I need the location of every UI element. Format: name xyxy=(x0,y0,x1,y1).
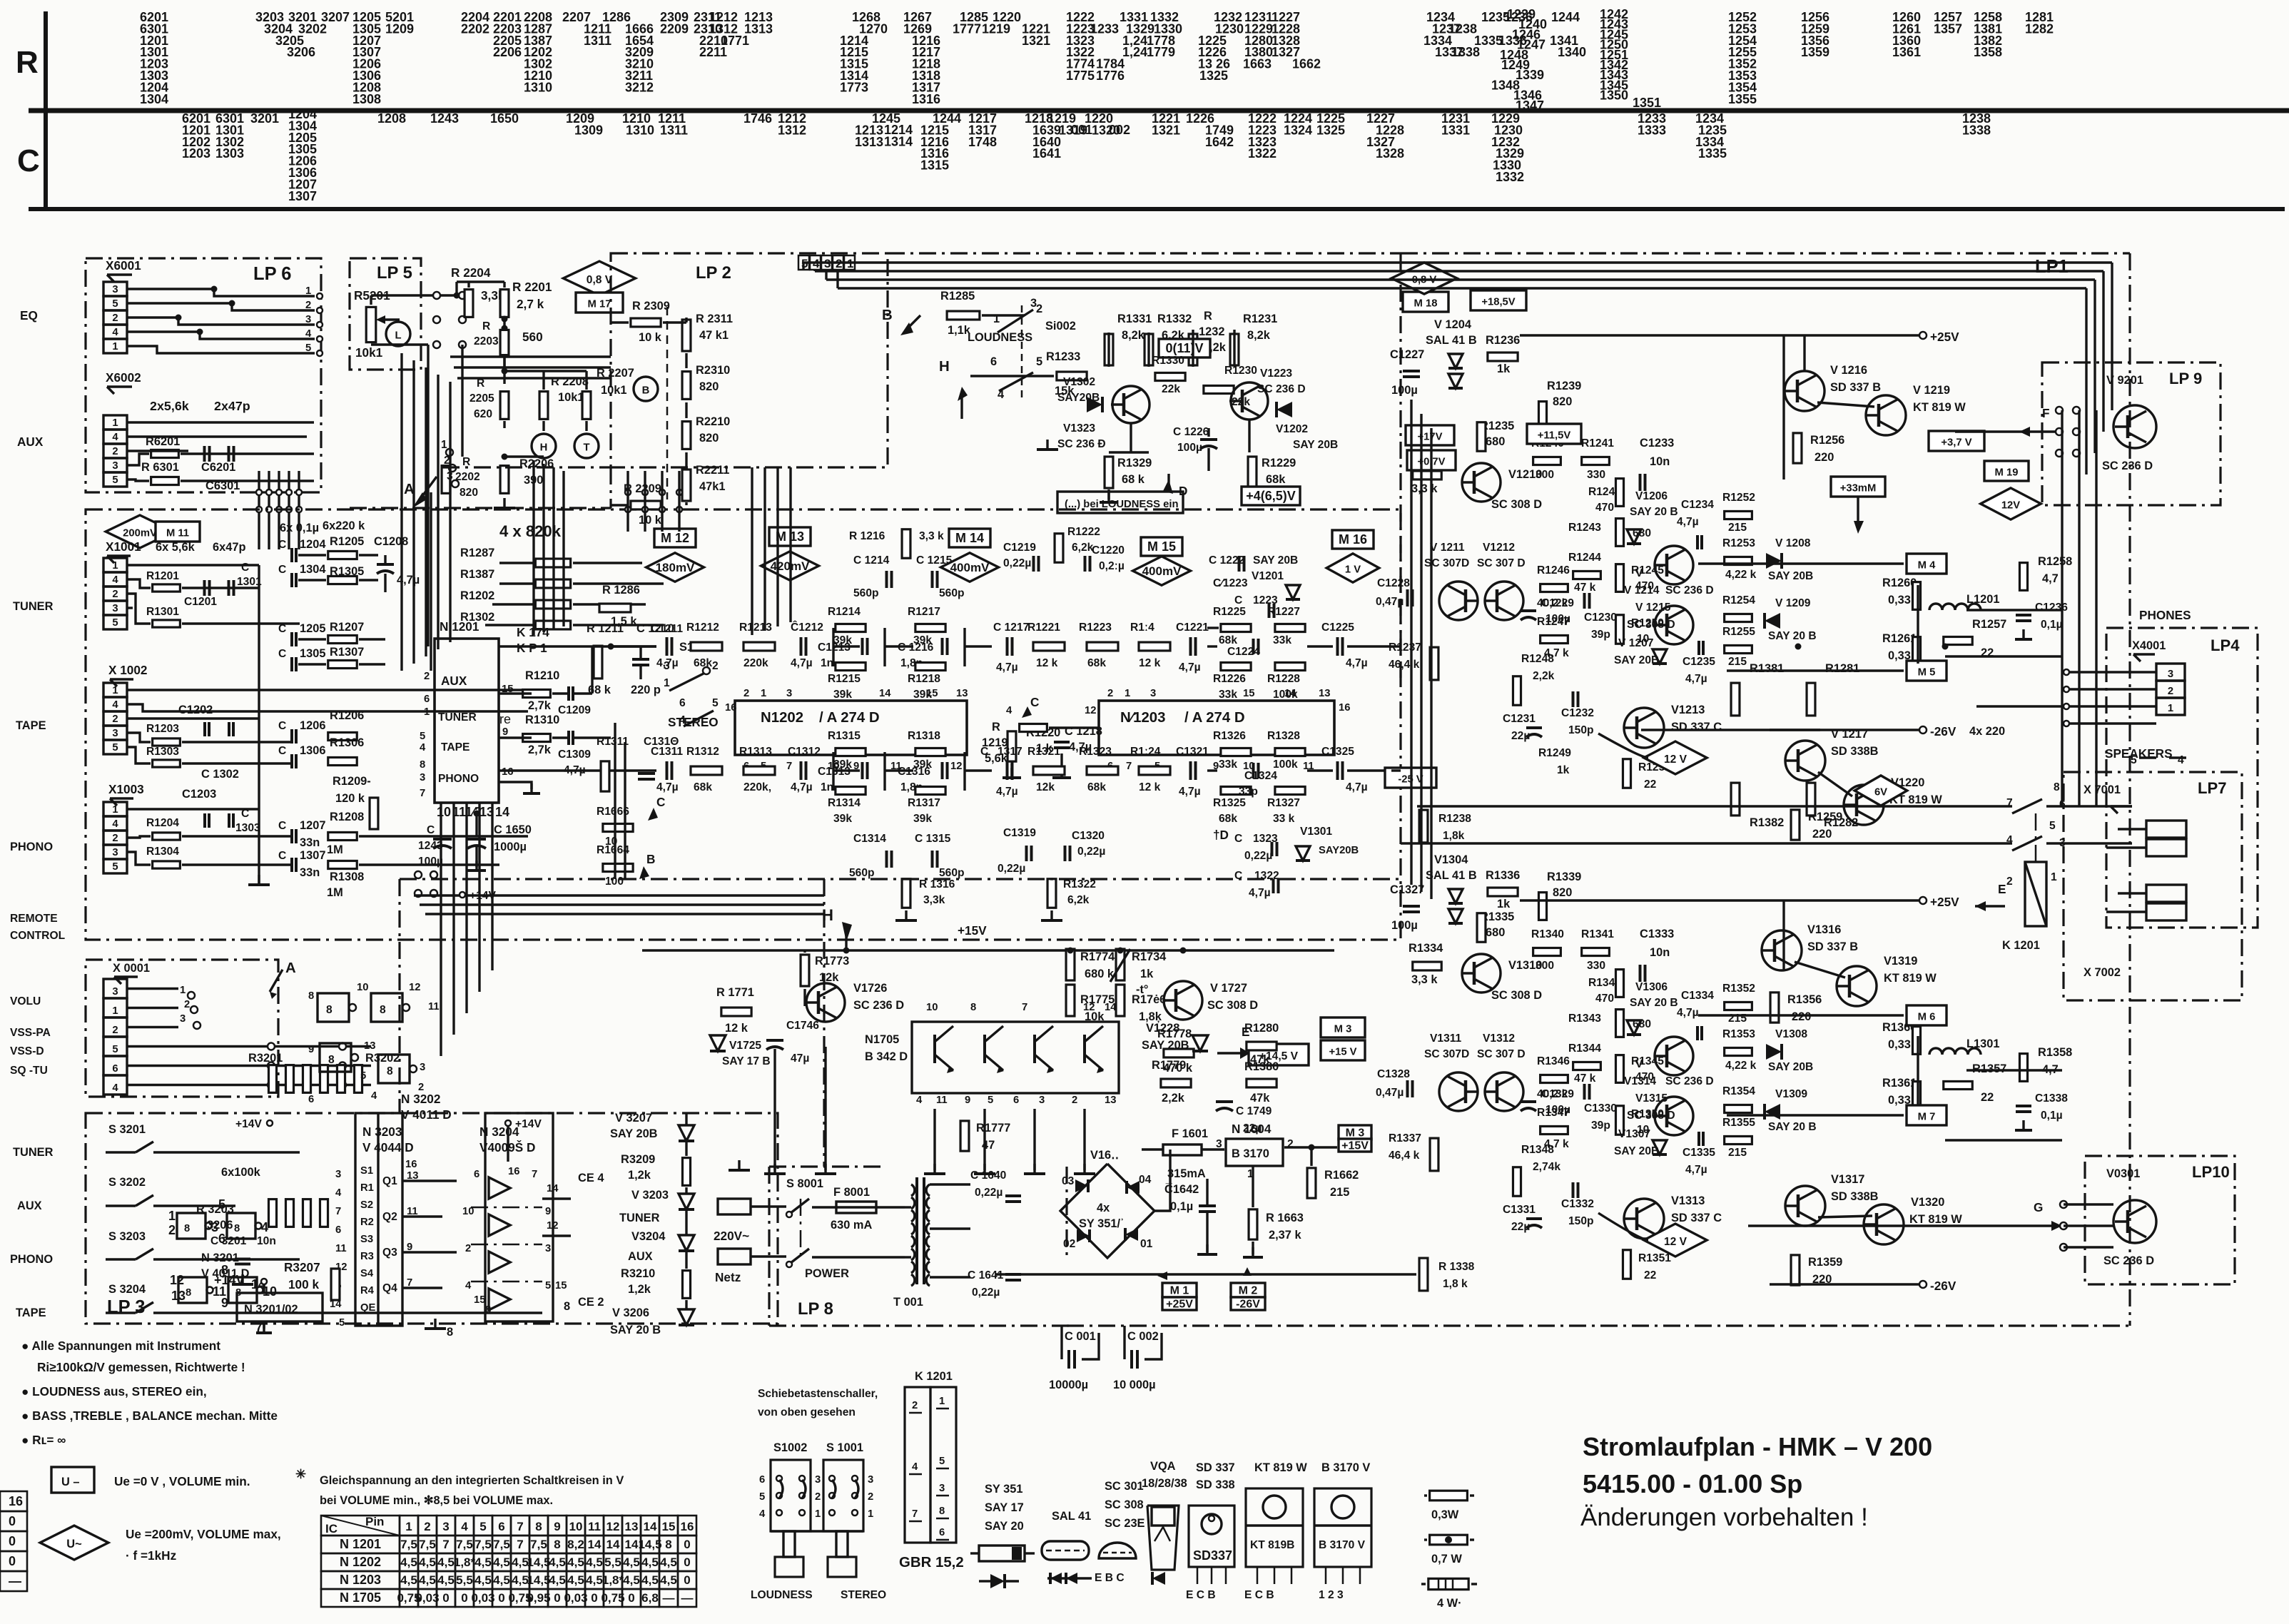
svg-text:4: 4 xyxy=(912,1461,918,1473)
svg-text:SD 338В: SD 338В xyxy=(1831,1190,1879,1203)
svg-text:Gleichspannung an den integrie: Gleichspannung an den integrierten Schal… xyxy=(320,1474,624,1487)
resistor R1250 10 xyxy=(1615,615,1623,644)
transistor V1210 SC308D xyxy=(1462,463,1501,502)
svg-text:+25V: +25V xyxy=(1930,895,1959,909)
svg-text:R1347: R1347 xyxy=(1537,1107,1570,1119)
svg-text:C1331: C1331 xyxy=(1503,1204,1536,1216)
wire +15V rail xyxy=(642,949,1334,951)
diode V1302 xyxy=(1087,397,1102,412)
measure M14 xyxy=(949,529,990,547)
transistor V1314 SC236D xyxy=(1655,1037,1693,1075)
svg-text:SAY 17: SAY 17 xyxy=(985,1501,1024,1514)
svg-text:4,5: 4,5 xyxy=(493,1556,510,1569)
svg-text:13: 13 xyxy=(1105,1095,1116,1106)
svg-text:400mV: 400mV xyxy=(950,561,990,574)
svg-text:12 k: 12 k xyxy=(725,1022,748,1035)
svg-text:Ĉ1212: Ĉ1212 xyxy=(791,620,823,634)
svg-text:0: 0 xyxy=(461,1591,467,1605)
svg-text:TAPE: TAPE xyxy=(16,1306,46,1319)
svg-text:C1338: C1338 xyxy=(2035,1092,2068,1105)
svg-text:40,2 k: 40,2 k xyxy=(1537,1088,1568,1100)
svg-text:X 7002: X 7002 xyxy=(2084,966,2121,979)
svg-text:12 V: 12 V xyxy=(1664,753,1687,766)
svg-text:4: 4 xyxy=(759,1508,766,1520)
svg-text:1335: 1335 xyxy=(1698,146,1727,161)
svg-text:X 1002: X 1002 xyxy=(108,663,147,677)
svg-text:3: 3 xyxy=(112,728,118,739)
svg-text:14: 14 xyxy=(606,1538,620,1551)
svg-text:2: 2 xyxy=(1107,688,1113,699)
svg-text:4,7µ: 4,7µ xyxy=(791,657,813,669)
svg-text:4,5: 4,5 xyxy=(549,1573,566,1587)
svg-text:1361: 1361 xyxy=(1892,45,1921,59)
box M1 +25V xyxy=(1162,1283,1197,1297)
svg-text:H: H xyxy=(540,442,548,453)
svg-text:8: 8 xyxy=(665,1538,671,1551)
svg-text:V 1204: V 1204 xyxy=(1434,318,1472,331)
measure M15 xyxy=(1141,537,1182,556)
svg-text:M 3: M 3 xyxy=(1346,1127,1365,1139)
svg-text:C 1215: C 1215 xyxy=(916,554,953,567)
svg-text:4,7µ: 4,7µ xyxy=(656,781,679,793)
wires lower row right xyxy=(1207,769,1217,771)
LP3 board outline xyxy=(86,1113,778,1324)
svg-text:1238: 1238 xyxy=(1448,21,1477,36)
svg-text:1303: 1303 xyxy=(215,146,244,161)
svg-text:470: 470 xyxy=(1595,502,1614,514)
svg-text:0,22µ: 0,22µ xyxy=(1003,557,1031,569)
svg-text:1357: 1357 xyxy=(1934,21,1962,36)
legend U- box xyxy=(51,1467,94,1493)
IC voltage table xyxy=(321,1516,400,1536)
wires between ICs xyxy=(1049,726,1099,729)
svg-text:1642: 1642 xyxy=(1205,135,1234,149)
svg-text:47k1: 47k1 xyxy=(699,480,725,493)
svg-text:+15 V: +15 V xyxy=(1329,1046,1356,1057)
svg-text:V1323: V1323 xyxy=(1063,422,1095,435)
capacitor C1208 electrolytic xyxy=(377,563,394,566)
svg-text:470: 470 xyxy=(1595,993,1614,1005)
svg-text:R1336: R1336 xyxy=(1486,869,1520,882)
svg-text:1331: 1331 xyxy=(1441,123,1470,137)
svg-text:R 2204: R 2204 xyxy=(451,265,491,280)
svg-text:B: B xyxy=(642,385,650,396)
relay K1201 xyxy=(2025,862,2046,926)
circle L xyxy=(386,322,410,346)
svg-text:V: V xyxy=(1635,1058,1643,1070)
svg-text:GBR 15,2: GBR 15,2 xyxy=(899,1555,964,1570)
svg-text:3: 3 xyxy=(112,284,118,295)
svg-text:68k: 68k xyxy=(694,657,712,669)
svg-text:R1323: R1323 xyxy=(1079,746,1112,758)
resistor R1350 10 xyxy=(1615,1106,1623,1135)
legend diode triangle xyxy=(990,1574,1005,1588)
svg-text:LP 5: LP 5 xyxy=(377,263,412,283)
svg-text:7,5: 7,5 xyxy=(400,1538,417,1551)
svg-text:12: 12 xyxy=(950,761,962,772)
svg-text:1: 1 xyxy=(2051,871,2057,883)
svg-text:C1312: C1312 xyxy=(788,746,821,758)
svg-text:V1311: V1311 xyxy=(1430,1032,1462,1045)
svg-text:C1314: C1314 xyxy=(853,833,886,845)
svg-text:1: 1 xyxy=(305,285,311,297)
wire upper channel output to LP9 xyxy=(1966,609,2062,611)
svg-text:V1312: V1312 xyxy=(1483,1032,1515,1045)
legend wattage 0,3W xyxy=(1430,1491,1468,1501)
svg-text:V1315: V1315 xyxy=(1635,1092,1668,1105)
svg-text:15: 15 xyxy=(555,1280,567,1291)
svg-text:SAY 20B: SAY 20B xyxy=(610,1127,658,1140)
svg-text:4: 4 xyxy=(112,1082,118,1094)
svg-text:4,5: 4,5 xyxy=(641,1556,659,1569)
svg-text:820: 820 xyxy=(1553,886,1572,899)
svg-text:3,3k: 3,3k xyxy=(923,894,945,906)
svg-text:LP7: LP7 xyxy=(2198,779,2227,797)
wire bundle tone verticals xyxy=(532,460,534,635)
svg-text:N 1705: N 1705 xyxy=(340,1590,381,1605)
svg-text:R1225: R1225 xyxy=(1213,606,1246,618)
wire +25V rail out xyxy=(995,1273,1416,1275)
svg-text:SAL 41 B: SAL 41 B xyxy=(1426,334,1477,347)
svg-text:22k: 22k xyxy=(1162,383,1180,395)
svg-text:6V: 6V xyxy=(1874,786,1887,798)
svg-text:1: 1 xyxy=(112,417,118,429)
svg-text:SC 236 D: SC 236 D xyxy=(2102,460,2153,472)
svg-text:1: 1 xyxy=(168,1209,176,1223)
svg-text:2209: 2209 xyxy=(660,21,689,36)
svg-text:1,24: 1,24 xyxy=(1122,45,1147,59)
svg-text:V1313: V1313 xyxy=(1671,1194,1705,1207)
svg-text:8: 8 xyxy=(234,1223,240,1234)
svg-text:10: 10 xyxy=(569,1520,583,1533)
svg-text:N 1202: N 1202 xyxy=(340,1555,381,1569)
svg-text:PHONO: PHONO xyxy=(438,773,479,785)
wire q9 q10 join xyxy=(1818,772,1852,796)
svg-text:R: R xyxy=(482,320,490,333)
svg-text:M 11: M 11 xyxy=(166,527,189,539)
svg-text:C1228: C1228 xyxy=(1377,577,1410,589)
svg-text:1206: 1206 xyxy=(300,719,325,732)
svg-text:KT 819 W: KT 819 W xyxy=(1913,401,1966,414)
svg-text:U~: U~ xyxy=(66,1538,81,1551)
svg-text:5: 5 xyxy=(112,298,118,310)
speaker wires xyxy=(2046,805,2132,807)
svg-text:16: 16 xyxy=(502,766,513,778)
svg-text:3206: 3206 xyxy=(287,45,315,59)
svg-text:68k: 68k xyxy=(694,781,712,793)
svg-text:22: 22 xyxy=(1644,1269,1657,1282)
svg-text:12 k: 12 k xyxy=(1139,781,1161,793)
svg-text:5,5: 5,5 xyxy=(604,1556,621,1569)
wire output bus upper amp xyxy=(1945,655,2062,657)
svg-text:R1201: R1201 xyxy=(146,570,179,582)
svg-text:14,5: 14,5 xyxy=(527,1573,550,1587)
svg-text:SAY 17 B: SAY 17 B xyxy=(722,1055,771,1067)
ground tone xyxy=(503,498,505,508)
svg-text:C1328: C1328 xyxy=(1377,1068,1410,1080)
main signal wire upper xyxy=(499,645,656,647)
svg-text:R1248: R1248 xyxy=(1521,653,1554,665)
svg-text:AUX: AUX xyxy=(17,1199,42,1212)
svg-text:LP10: LP10 xyxy=(2192,1163,2230,1181)
svg-text:SD 338В: SD 338В xyxy=(1831,745,1879,758)
dashdot segment left of LP2 bottom xyxy=(442,466,611,468)
remote box outline xyxy=(86,960,278,1097)
svg-text:1243: 1243 xyxy=(430,111,459,126)
svg-text:R1734: R1734 xyxy=(1132,950,1167,963)
svg-text:22: 22 xyxy=(1644,778,1657,791)
svg-text:68k: 68k xyxy=(1219,634,1237,646)
svg-text:R1301: R1301 xyxy=(146,606,179,618)
svg-text:0: 0 xyxy=(442,1591,449,1605)
svg-text:C 001: C 001 xyxy=(1065,1330,1096,1343)
svg-text:4,5: 4,5 xyxy=(400,1556,417,1569)
svg-text:4,7µ: 4,7µ xyxy=(1685,1164,1707,1176)
svg-text:1662: 1662 xyxy=(1292,57,1321,71)
svg-text:X1003: X1003 xyxy=(108,782,144,796)
svg-text:C: C xyxy=(1234,833,1242,845)
svg-text:REMOTE: REMOTE xyxy=(10,913,58,925)
wire q9 q10 join xyxy=(1818,1216,1872,1217)
svg-text:1209: 1209 xyxy=(385,21,414,36)
svg-text:2202: 2202 xyxy=(455,471,480,483)
svg-text:4,22 k: 4,22 k xyxy=(1725,569,1757,581)
svg-text:C: C xyxy=(427,824,435,836)
svg-text:SAY 20B: SAY 20B xyxy=(1768,570,1813,582)
svg-text:TAPE: TAPE xyxy=(441,741,470,753)
svg-text:8: 8 xyxy=(184,1223,190,1234)
svg-text:0: 0 xyxy=(9,1514,16,1528)
svg-text:8: 8 xyxy=(554,1538,560,1551)
svg-text:8,2k: 8,2k xyxy=(1247,329,1271,342)
svg-text:C 3201: C 3201 xyxy=(210,1235,247,1247)
svg-text:SD337: SD337 xyxy=(1193,1548,1232,1563)
svg-text:9: 9 xyxy=(502,726,508,738)
svg-text:C 1217: C 1217 xyxy=(993,621,1029,634)
svg-text:+11,5V: +11,5V xyxy=(1538,430,1571,441)
svg-text:4 x 820k: 4 x 820k xyxy=(499,522,562,540)
svg-text:11: 11 xyxy=(428,1001,440,1013)
svg-text:6: 6 xyxy=(474,1169,479,1180)
svg-text:6,8: 6,8 xyxy=(641,1591,659,1605)
svg-text:C 1302: C 1302 xyxy=(201,768,239,781)
svg-text:R1214: R1214 xyxy=(828,606,861,618)
resistor R1232 6,2k xyxy=(1189,334,1197,365)
svg-text:Q3: Q3 xyxy=(382,1247,397,1259)
svg-text:215: 215 xyxy=(1330,1186,1349,1199)
terminal -26V xyxy=(1919,726,1927,734)
wire q7 q8 join xyxy=(1817,402,1874,407)
svg-text:V3204: V3204 xyxy=(631,1230,666,1243)
junction dots LP9 edge xyxy=(2056,407,2063,414)
svg-text:1304: 1304 xyxy=(140,92,168,106)
svg-text:13: 13 xyxy=(171,1289,186,1303)
svg-text:B: B xyxy=(646,852,655,866)
wires tone network xyxy=(504,370,587,372)
svg-text:R: R xyxy=(1204,310,1212,323)
svg-text:5: 5 xyxy=(112,1044,118,1055)
svg-text:1: 1 xyxy=(424,706,430,718)
svg-text:R1218: R1218 xyxy=(908,673,940,685)
box M 6 xyxy=(1907,1005,1947,1025)
svg-text:0: 0 xyxy=(9,1554,16,1568)
wire bundle bottom middle xyxy=(414,894,824,896)
svg-text:C1746: C1746 xyxy=(786,1020,819,1032)
svg-text:14: 14 xyxy=(495,805,509,819)
svg-text:R1254: R1254 xyxy=(1722,594,1755,607)
svg-text:R1355: R1355 xyxy=(1722,1117,1755,1129)
svg-text:8: 8 xyxy=(2054,781,2060,793)
junction dots scatter xyxy=(454,293,460,299)
svg-text:V16‥: V16‥ xyxy=(1090,1149,1119,1162)
svg-text:C 1315: C 1315 xyxy=(915,833,951,845)
svg-text:4,7µ: 4,7µ xyxy=(996,786,1018,798)
svg-text:10k1: 10k1 xyxy=(355,345,383,360)
wires phono out xyxy=(359,835,528,837)
ground N3203 xyxy=(434,1319,436,1329)
svg-text:3: 3 xyxy=(2168,669,2173,680)
label +14V N3204 xyxy=(505,1120,511,1126)
svg-text:C⁄1223: C⁄1223 xyxy=(1213,577,1248,589)
svg-text:S3: S3 xyxy=(360,1234,373,1245)
LP1 board outline xyxy=(1401,252,2130,254)
svg-text:2: 2 xyxy=(418,1082,424,1093)
svg-text:R1ː24: R1ː24 xyxy=(1130,746,1161,758)
resistor R1332 6,2k xyxy=(1144,334,1153,365)
grounds N1705 xyxy=(933,1109,935,1170)
svg-text:E C B: E C B xyxy=(1186,1589,1216,1601)
svg-text:C1231: C1231 xyxy=(1503,713,1536,725)
svg-text:3,3 k: 3,3 k xyxy=(919,530,944,542)
svg-text:1333: 1333 xyxy=(1638,123,1666,137)
svg-text:0(11)V: 0(11)V xyxy=(1165,341,1203,355)
svg-text:R1331: R1331 xyxy=(1117,313,1152,325)
svg-text:SC 23Е: SC 23Е xyxy=(1105,1517,1145,1530)
svg-text:C1333: C1333 xyxy=(1640,928,1674,940)
svg-text:8: 8 xyxy=(328,1054,335,1066)
svg-text:N1705: N1705 xyxy=(865,1033,899,1046)
svg-text:C: C xyxy=(278,745,286,757)
wires mid tone xyxy=(503,357,505,384)
svg-text:6x47p: 6x47p xyxy=(213,541,245,554)
svg-text:R1212: R1212 xyxy=(686,621,719,634)
capacitor C1210 220p xyxy=(632,658,649,661)
dashdot border between LP2 and input xyxy=(350,507,611,509)
connector X6002 xyxy=(103,415,127,430)
svg-text:R 1216: R 1216 xyxy=(849,530,885,542)
svg-text:2,2k: 2,2k xyxy=(1162,1092,1185,1105)
svg-text:M 12: M 12 xyxy=(661,531,689,545)
svg-text:SC 308 D: SC 308 D xyxy=(1491,989,1542,1002)
svg-text:R1210: R1210 xyxy=(525,669,559,682)
svg-text:2,74k: 2,74k xyxy=(1533,1161,1560,1173)
svg-text:7: 7 xyxy=(786,761,792,772)
svg-text:EQ: EQ xyxy=(20,308,38,323)
svg-text:1219: 1219 xyxy=(982,21,1010,36)
svg-text:C: C xyxy=(278,820,286,832)
legend B3170 symbol xyxy=(1314,1488,1371,1567)
svg-text:39k: 39k xyxy=(833,689,852,701)
svg-text:R1202: R1202 xyxy=(460,589,494,602)
resistor R1777 47 xyxy=(960,1121,969,1151)
svg-text:120 k: 120 k xyxy=(335,792,365,805)
wire right edge verticals xyxy=(2061,410,2063,806)
wires input bus verticals mid xyxy=(430,492,432,671)
svg-text:8: 8 xyxy=(535,1520,542,1533)
svg-text:E C B: E C B xyxy=(1244,1589,1274,1601)
svg-text:4,7µ: 4,7µ xyxy=(1346,781,1368,793)
svg-text:1232: 1232 xyxy=(1199,325,1224,338)
svg-text:SC 307 D: SC 307 D xyxy=(1477,557,1526,569)
resistor R1245 470 xyxy=(1615,564,1623,592)
svg-text:AUX: AUX xyxy=(17,435,44,449)
svg-text:2: 2 xyxy=(184,999,190,1010)
svg-text:—: — xyxy=(9,1574,21,1588)
svg-text:5: 5 xyxy=(759,1491,765,1503)
svg-text:R1774: R1774 xyxy=(1080,950,1115,963)
svg-text:SAY 20B: SAY 20B xyxy=(1142,1039,1189,1052)
svg-text:SC 308 D: SC 308 D xyxy=(1207,999,1258,1012)
svg-text:820: 820 xyxy=(1553,395,1572,408)
svg-text:TAPE: TAPE xyxy=(16,719,46,732)
svg-text:● BASS ,TREBLE , BALANCE mecha: ● BASS ,TREBLE , BALANCE mechan. Mitte xyxy=(21,1409,278,1423)
svg-text:S 3203: S 3203 xyxy=(108,1230,146,1243)
svg-text:5: 5 xyxy=(360,1070,366,1082)
svg-text:C1335: C1335 xyxy=(1683,1147,1715,1159)
terminal Netz xyxy=(718,1249,751,1264)
svg-text:R3201: R3201 xyxy=(248,1052,283,1065)
resistor 3,3k vertical xyxy=(465,290,473,318)
connector X6001 xyxy=(103,282,127,296)
svg-text:4,5: 4,5 xyxy=(400,1573,417,1587)
svg-text:0,22µ: 0,22µ xyxy=(972,1286,1000,1299)
svg-text:11: 11 xyxy=(335,1243,347,1254)
svg-text:C1211: C1211 xyxy=(651,623,683,635)
svg-text:V 1209: V 1209 xyxy=(1775,597,1811,609)
svg-text:3: 3 xyxy=(305,314,311,325)
svg-text:V1223: V1223 xyxy=(1260,367,1292,380)
svg-text:+33mM: +33mM xyxy=(1840,482,1877,494)
svg-text:1: 1 xyxy=(664,677,670,689)
svg-text:16: 16 xyxy=(725,702,736,714)
wires X1002 xyxy=(127,689,542,691)
bundle verticals LP6 to input border xyxy=(258,471,260,549)
transistor V1316 SD337B xyxy=(1762,930,1802,970)
wires X6001 to LP6 edge pins xyxy=(127,289,315,296)
svg-text:220 p: 220 p xyxy=(631,684,661,696)
resistor R1251 22 xyxy=(1623,759,1630,788)
svg-text:4,5: 4,5 xyxy=(512,1556,529,1569)
svg-text:5: 5 xyxy=(420,731,425,742)
svg-text:100µ: 100µ xyxy=(1391,384,1418,397)
svg-text:V 1216: V 1216 xyxy=(1830,364,1867,377)
resistor R1356 220 xyxy=(1770,993,1779,1022)
svg-text:VQA: VQA xyxy=(1150,1460,1176,1473)
svg-text:R 1286: R 1286 xyxy=(602,584,640,597)
svg-text:1: 1 xyxy=(441,439,447,451)
svg-text:1347: 1347 xyxy=(1516,98,1544,113)
svg-text:47k: 47k xyxy=(1250,1092,1270,1105)
svg-text:0,75: 0,75 xyxy=(601,1591,624,1605)
svg-text:R1256: R1256 xyxy=(1810,434,1844,447)
svg-text:SD 337: SD 337 xyxy=(1196,1461,1235,1474)
svg-text:SD 337 C: SD 337 C xyxy=(1671,721,1722,734)
svg-text:S 3201: S 3201 xyxy=(108,1123,146,1136)
svg-text:0,1µ: 0,1µ xyxy=(2041,619,2063,631)
svg-text:1: 1 xyxy=(180,985,186,996)
svg-text:7,5: 7,5 xyxy=(493,1538,510,1551)
svg-text:220V~: 220V~ xyxy=(714,1229,749,1243)
